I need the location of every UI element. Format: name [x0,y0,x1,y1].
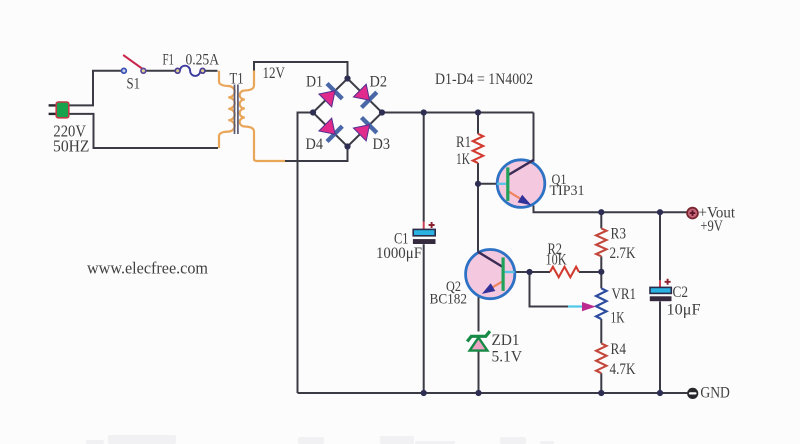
svg-text:D4: D4 [306,136,324,153]
svg-text:D1: D1 [306,74,323,91]
svg-text:D1-D4 = 1N4002: D1-D4 = 1N4002 [435,71,533,88]
svg-text:2.7K: 2.7K [610,245,637,262]
svg-text:TIP31: TIP31 [550,183,585,199]
svg-text:ZD1: ZD1 [492,332,520,349]
svg-text:1K: 1K [456,151,471,168]
svg-text:D2: D2 [370,74,388,91]
svg-text:5.1V: 5.1V [492,349,523,366]
svg-text:0.25A: 0.25A [186,52,220,69]
svg-text:VR1: VR1 [612,286,637,303]
svg-text:50HZ: 50HZ [53,137,90,156]
svg-text:T1: T1 [230,71,244,88]
svg-text:C2: C2 [673,284,689,301]
svg-text:4.7K: 4.7K [610,361,637,378]
svg-text:10μF: 10μF [667,302,701,319]
svg-text:F1: F1 [163,52,175,69]
svg-text:D3: D3 [373,136,391,153]
svg-text:R3: R3 [611,225,627,242]
svg-text:R1: R1 [456,134,471,151]
svg-text:BC182: BC182 [430,292,468,308]
svg-text:+9V: +9V [700,218,723,235]
svg-text:10K: 10K [546,252,568,269]
svg-text:S1: S1 [127,76,141,93]
svg-text:R4: R4 [611,341,627,358]
svg-text:1K: 1K [611,310,626,327]
svg-text:1000μF: 1000μF [376,245,422,262]
svg-text:www.elecfree.com: www.elecfree.com [87,259,208,278]
svg-text:12V: 12V [263,65,286,82]
svg-text:GND: GND [700,385,730,402]
